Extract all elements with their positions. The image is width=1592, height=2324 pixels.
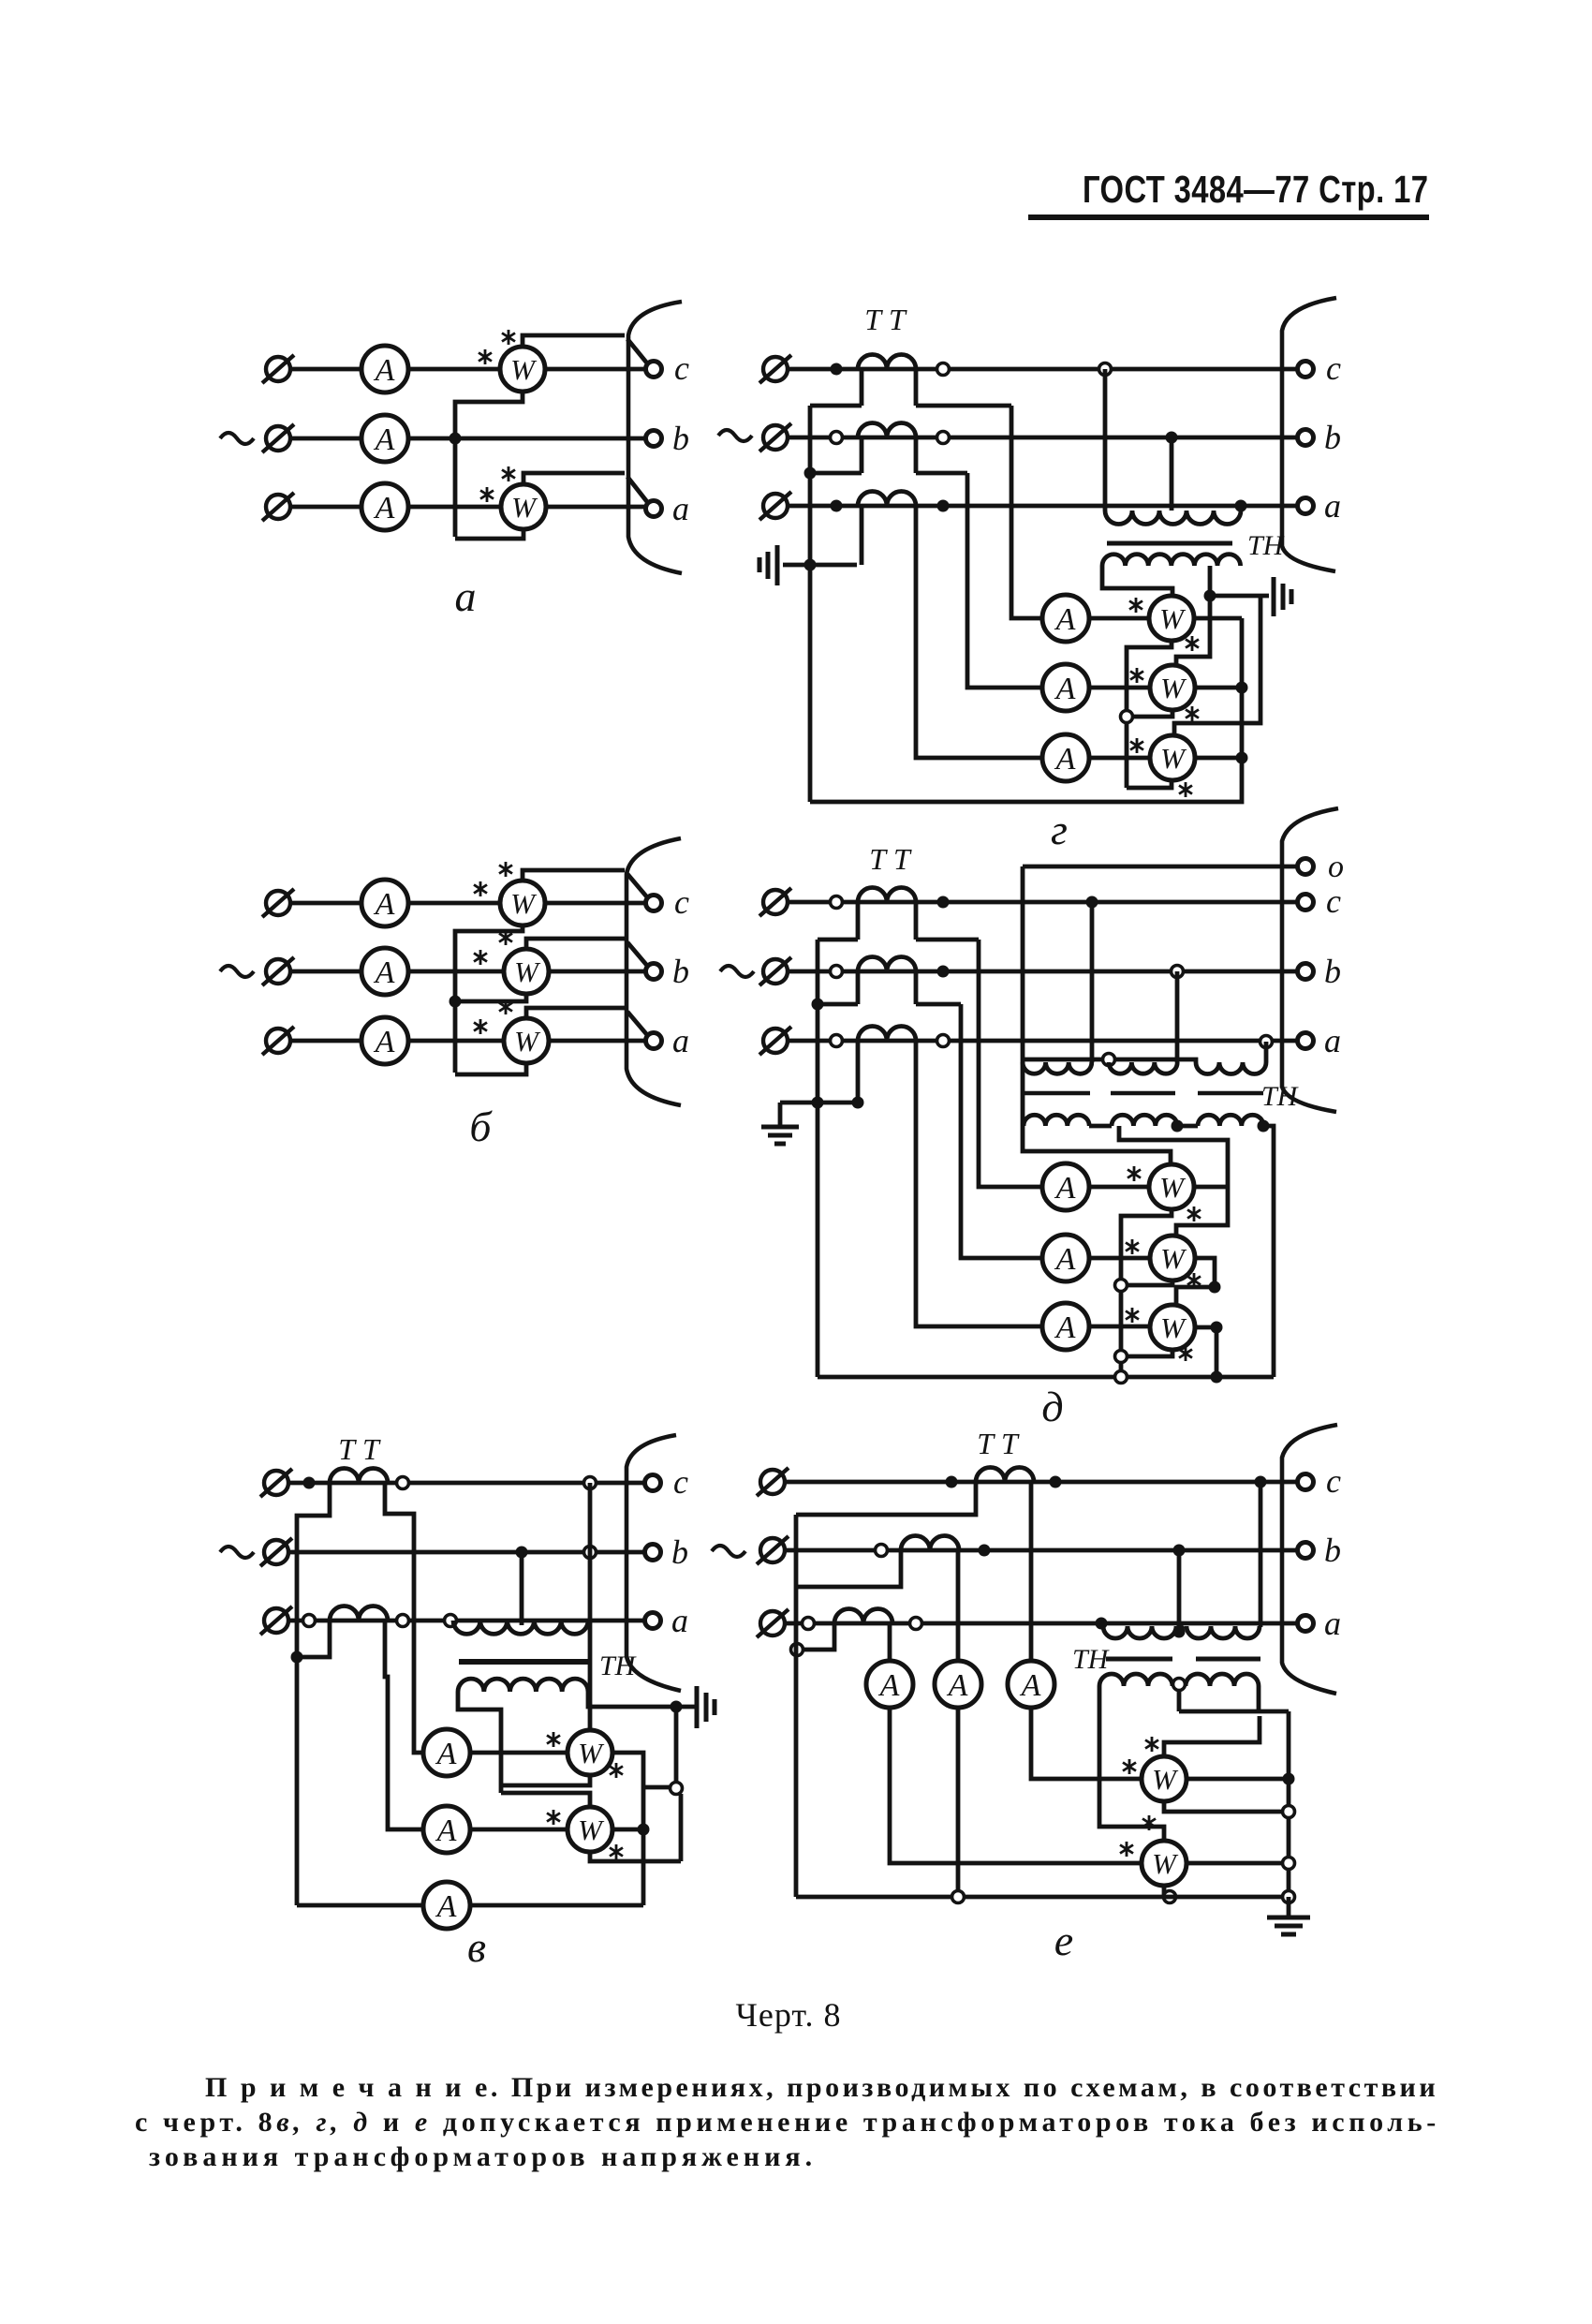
wire link to W2 top — [501, 1793, 590, 1808]
junction W3 bottom on neutral column — [1115, 1351, 1128, 1363]
junction b tap to TH — [1173, 1545, 1186, 1557]
wire A3 to W3 — [1089, 756, 1150, 761]
ground (scheme g right, right-facing earth) — [1274, 577, 1291, 616]
current transformer TT phase c (scheme d) — [858, 888, 916, 903]
svg-text:c: c — [674, 883, 689, 921]
TH primary tap from b — [1177, 1550, 1182, 1632]
wattmeter W2 (scheme d) — [1150, 1236, 1195, 1280]
wattmeter W phase b (scheme b) — [504, 949, 549, 994]
TH primary tap from c — [1259, 1482, 1263, 1627]
junction W2 feed — [671, 1783, 683, 1795]
wire W2 right to bus — [1195, 686, 1242, 690]
crossing mark b at W1 column — [584, 1547, 597, 1559]
wire A3 right to return bus — [470, 1903, 643, 1908]
wire phase a — [788, 504, 1298, 509]
source terminal phase c (scheme e) — [757, 1468, 789, 1496]
junction after CT c — [397, 1477, 409, 1489]
TH core 1 (scheme e) — [1106, 1657, 1172, 1662]
junction ground rail on bus — [804, 559, 817, 571]
junction bus corner — [1283, 1891, 1295, 1903]
wire W2 bottom to neutral column — [1132, 710, 1172, 717]
bottom bus (scheme d) — [818, 1375, 1274, 1380]
TH secondary 2 (scheme e) — [1186, 1674, 1259, 1686]
junction after CT c — [1050, 1476, 1062, 1488]
ammeter A2 (scheme v) — [423, 1806, 470, 1853]
svg-text:ТН: ТН — [1247, 530, 1286, 561]
TH core 1 — [1024, 1091, 1090, 1096]
source terminal phase c (scheme b) — [262, 889, 294, 917]
wire W-b bottom to common bus — [455, 994, 526, 1001]
CT-c secondary right lead down to A1 — [385, 1483, 424, 1753]
TH core (scheme v) — [459, 1659, 590, 1665]
source terminal phase a (scheme a) — [262, 493, 294, 521]
TH primary 2 (scheme e) — [1187, 1626, 1260, 1638]
junction c tap to TH — [1086, 896, 1098, 909]
asterisk W-a current — [474, 1019, 487, 1034]
svg-text:o: o — [1328, 850, 1344, 884]
wire phase c — [290, 901, 361, 906]
ammeter A phase c (scheme a) — [361, 346, 408, 392]
terminal b (scheme d) — [1298, 964, 1314, 980]
junction W2 bottom on neutral column — [1121, 711, 1133, 723]
wire bus bottom to A3 — [297, 1903, 423, 1908]
TH secondary left lead to W1 top — [1102, 566, 1172, 597]
transformer-under-test brace (scheme a) — [628, 302, 682, 573]
CT-b secondary left lead to bus — [796, 1550, 901, 1587]
svg-text:b: b — [1324, 419, 1341, 456]
wire common bus bottom to W-a bottom — [455, 529, 523, 539]
svg-text:a: a — [1324, 487, 1341, 525]
TH tap from a — [1264, 1042, 1269, 1062]
svg-text:b: b — [1324, 953, 1341, 990]
TH secondary left lead to W1 bottom — [458, 1692, 501, 1793]
wire phase b — [788, 436, 1298, 440]
asterisk W3 potential — [1179, 782, 1192, 797]
transformer-under-test brace (scheme b) — [626, 838, 681, 1105]
ground (scheme g left, left-facing earth) — [759, 545, 777, 585]
wire W to terminal a — [549, 1039, 646, 1044]
wire phase c — [788, 900, 1298, 905]
junction b tap — [516, 1547, 528, 1559]
TH secondary right lead to ground — [588, 1692, 672, 1707]
svg-text:ТН: ТН — [1072, 1644, 1111, 1675]
source terminal phase b (scheme b) — [262, 957, 294, 985]
transformer-under-test brace (scheme v) — [626, 1435, 681, 1691]
wire W1 right — [1194, 1185, 1228, 1190]
junction b tap to TH — [1166, 432, 1178, 444]
ammeter A2 (scheme g) — [1042, 664, 1089, 711]
source terminal phase a (scheme b) — [262, 1027, 294, 1055]
asterisk W2 potential — [1186, 706, 1199, 721]
CT-b secondary leads and rail — [810, 437, 967, 473]
TH secondary 1 left lead to W2 top — [1099, 1686, 1164, 1842]
svg-text:П р и м е ч а н и е. При изме: П р и м е ч а н и е. При измерениях, про… — [205, 2072, 1438, 2103]
ammeter A phase b (scheme b) — [361, 948, 408, 995]
ammeter A3 (scheme d) — [1042, 1303, 1089, 1350]
wire W-c bottom to common bus — [455, 392, 523, 537]
wire W-a potential hook up and right — [523, 473, 625, 484]
asterisk W3 current — [1126, 1308, 1139, 1323]
wire phase c — [788, 367, 1298, 372]
svg-text:b: b — [672, 420, 689, 457]
CT-b secondary right lead to A2 — [956, 1550, 961, 1661]
wire phase a — [290, 1039, 361, 1044]
wire bus bottom to W-a bottom — [455, 1063, 526, 1074]
svg-text:ГОСТ 3484—77 Стр. 17: ГОСТ 3484—77 Стр. 17 — [1083, 167, 1428, 210]
junction before CT b — [876, 1545, 888, 1557]
asterisk W3 potential — [1179, 1346, 1192, 1361]
supply tilde (between a and g) — [718, 430, 752, 441]
junction before CT b — [831, 966, 843, 978]
wattmeter W2 (scheme e) — [1142, 1841, 1187, 1886]
junction a to TH primary — [1235, 500, 1247, 512]
terminal a (scheme e) — [1298, 1616, 1314, 1632]
svg-text:Т Т: Т Т — [869, 842, 912, 876]
ammeter A phase c (scheme b) — [361, 880, 408, 926]
wattmeter W phase c (scheme a) — [500, 347, 545, 392]
transformer-under-test brace (scheme e) — [1282, 1425, 1337, 1694]
wattmeter W3 (scheme g) — [1150, 735, 1195, 780]
CT-c secondary left lead to left bus — [297, 1483, 330, 1905]
junction after CT a — [397, 1615, 409, 1627]
current transformer TT phase c (scheme g) — [858, 355, 916, 370]
TH primary right end to a — [1239, 506, 1244, 511]
wire W2 right to bus — [1187, 1861, 1289, 1866]
svg-text:c: c — [673, 1463, 688, 1501]
wattmeter W1 (scheme v) — [568, 1730, 612, 1775]
junction before CT c — [831, 896, 843, 909]
wire A2 to W2 — [1089, 1256, 1150, 1261]
terminal a (scheme a) — [646, 501, 662, 517]
tap diagonal to terminal a (scheme b) — [627, 1012, 648, 1036]
secondary rail to right bus — [1179, 1710, 1289, 1714]
junction after CT b — [937, 432, 950, 444]
asterisk W1 current — [1128, 1166, 1141, 1181]
source terminal phase b (scheme g) — [759, 423, 791, 451]
junction common bus on phase b — [450, 433, 462, 445]
wire phase a — [785, 1621, 1298, 1626]
left bus (scheme g) — [808, 406, 813, 802]
TH primary 2 (scheme d) — [1109, 1062, 1177, 1073]
junction c tap to TH — [1255, 1476, 1267, 1488]
wire wattmeter to terminal c — [545, 367, 646, 372]
terminal c (scheme v) — [645, 1475, 661, 1491]
neutral feed down to W1 top — [1023, 866, 1171, 1165]
svg-text:Т Т: Т Т — [864, 303, 907, 336]
svg-text:c: c — [674, 349, 689, 387]
wire W-a potential hook — [526, 1008, 625, 1018]
source terminal phase c (scheme g) — [759, 355, 791, 383]
wire W to terminal c — [545, 901, 646, 906]
junction a tap to TH — [1096, 1618, 1108, 1630]
terminal c (scheme a) — [646, 362, 662, 377]
junction after CT b — [937, 966, 950, 978]
wire W-c bottom to common bus — [455, 925, 523, 1073]
wire W-c potential hook up and right — [523, 335, 625, 347]
CT-a secondary left lead to bus — [803, 1623, 834, 1650]
svg-text:зования трансформаторов напряж: зования трансформаторов напряжения. — [149, 2141, 817, 2172]
wire A1 to W1 — [1089, 1185, 1149, 1190]
asterisk W1 current — [1123, 1759, 1136, 1774]
TH secondary 2 (scheme d) — [1112, 1115, 1177, 1126]
supply tilde (scheme b left) — [220, 966, 254, 977]
asterisk W-a potential — [499, 999, 512, 1014]
wire W1 bottom to neutral column — [1127, 641, 1172, 788]
source terminal phase b (scheme d) — [759, 957, 791, 985]
wire W1 right to bus — [1187, 1777, 1289, 1782]
svg-text:г: г — [1051, 806, 1068, 853]
junction a tap to TH — [1260, 1036, 1273, 1048]
CT-a secondary right lead to A3 — [916, 1041, 1042, 1326]
asterisk W1 potential — [1187, 1206, 1201, 1221]
junction after CT c — [937, 896, 950, 909]
svg-text:a: a — [672, 1022, 689, 1059]
junction CT-a lead on ground rail — [852, 1097, 864, 1109]
tap diagonal to terminal c (scheme b) — [627, 874, 648, 898]
junction W1 bottom on bus — [1283, 1806, 1295, 1818]
wire phase a — [788, 1039, 1298, 1044]
wire W3 bottom — [1127, 1350, 1172, 1356]
junction W2 right on bus — [1283, 1858, 1295, 1870]
source terminal phase b (scheme e) — [757, 1536, 789, 1564]
wire A1 to W1 — [470, 1751, 568, 1755]
wire phase b — [788, 970, 1298, 974]
wire phase b — [785, 1548, 1298, 1553]
source terminal phase c (scheme d) — [759, 888, 791, 916]
asterisk W1 current — [1129, 598, 1142, 613]
TH secondary 2 right lead — [1257, 1686, 1261, 1711]
wire phase b — [288, 1550, 646, 1555]
junction earth tap — [1204, 590, 1216, 602]
wire A1 to W1 — [1089, 616, 1149, 621]
left bus (scheme d) — [816, 940, 820, 1377]
asterisk W-b current — [474, 950, 487, 965]
svg-text:c: c — [1326, 349, 1341, 387]
wire W2 bottom — [1127, 1280, 1172, 1285]
svg-text:в: в — [467, 1923, 486, 1971]
TH neutral link — [1023, 1059, 1196, 1062]
junction before CT c — [946, 1476, 958, 1488]
terminal a (scheme v) — [645, 1613, 661, 1629]
header underline — [1028, 215, 1429, 220]
CT-b secondary leads and rail — [818, 971, 961, 1004]
wattmeter W phase c (scheme b) — [500, 881, 545, 925]
junction secondary 2 right — [1172, 1120, 1184, 1132]
wattmeter W2 (scheme g) — [1150, 665, 1195, 710]
wire neutral column bottom to W3 bottom — [1127, 780, 1172, 788]
wire W3 right to bus — [1195, 1327, 1216, 1377]
asterisk W1 potential — [1186, 636, 1199, 651]
wire W2 bottom to potential column — [590, 1852, 681, 1861]
TH primary riser a — [1101, 1623, 1103, 1627]
junction before CT a — [831, 500, 843, 512]
asterisk W2 potential — [610, 1844, 623, 1859]
asterisk W-c potential — [499, 862, 512, 877]
current transformer TT phase b (scheme e) — [901, 1536, 959, 1551]
ammeter A1 (scheme d) — [1042, 1163, 1089, 1210]
potential column lower segment — [679, 1794, 684, 1861]
svg-text:Черт. 8: Черт. 8 — [736, 1996, 842, 2034]
left bus (scheme e) — [794, 1515, 799, 1897]
svg-text:b: b — [671, 1533, 688, 1571]
junction ground rail on bus — [812, 1097, 824, 1109]
source terminal phase a (scheme e) — [757, 1609, 789, 1637]
ammeter A3 (scheme e) — [1008, 1661, 1054, 1708]
current transformer TT phase c (scheme e) — [976, 1468, 1034, 1483]
stub to return bus — [643, 1785, 671, 1790]
TH secondary 3 (scheme d) — [1198, 1115, 1263, 1126]
asterisk W3 current — [1130, 738, 1143, 753]
junction W-b bottom on bus — [450, 996, 462, 1008]
wire CT-b to A2 — [961, 1004, 1042, 1258]
asterisk W1 potential — [1145, 1737, 1158, 1752]
TH core 3 — [1198, 1091, 1263, 1096]
wire A2 to W2 — [470, 1828, 568, 1832]
asterisk W-c current — [479, 349, 492, 364]
ammeter A3 (scheme g) — [1042, 734, 1089, 781]
junction after CT c — [937, 363, 950, 376]
svg-text:c: c — [1326, 1462, 1341, 1500]
source terminal phase b (scheme v) — [260, 1538, 292, 1566]
wattmeter W3 (scheme d) — [1150, 1305, 1195, 1350]
supply tilde (scheme a left) — [220, 433, 254, 444]
svg-text:с черт. 8в, г, д и е допускает: с черт. 8в, г, д и е допускается примене… — [135, 2107, 1440, 2138]
current transformer TT phase a (scheme d) — [858, 1027, 916, 1042]
CT-a secondary left lead — [856, 1041, 861, 1103]
wire phase a — [288, 1619, 646, 1623]
wire W2 bottom to bottom bus — [1162, 1886, 1167, 1897]
asterisk W2 potential — [1187, 1273, 1201, 1288]
asterisk W2 current — [1130, 668, 1143, 683]
ammeter A phase a (scheme a) — [361, 483, 408, 530]
supply tilde (between v and e) — [712, 1546, 745, 1557]
wire phase a to ammeter — [290, 505, 361, 510]
wattmeter W phase a (scheme b) — [504, 1018, 549, 1063]
transformer-under-test brace (scheme d) — [1282, 808, 1338, 1112]
ammeter A2 (scheme d) — [1042, 1235, 1089, 1281]
CT-c secondary right lead to A3 — [1029, 1482, 1034, 1661]
junction secondary mid — [1173, 1679, 1186, 1691]
wire W2 right to return bus — [612, 1828, 643, 1832]
wire A to W phase b — [408, 970, 504, 974]
ammeter A3 (scheme v) — [423, 1882, 470, 1929]
wire A1 bottom to W2 — [890, 1708, 1142, 1863]
junction after CT a — [937, 500, 950, 512]
wire ammeter to wattmeter phase a — [408, 505, 501, 510]
terminal a (scheme g) — [1298, 498, 1314, 514]
TH primary tap from b — [1170, 437, 1174, 511]
wire phase c — [785, 1480, 1298, 1485]
svg-text:b: b — [1324, 1532, 1341, 1569]
wire phase c to ammeter — [290, 367, 361, 372]
wire CT-b to A2 — [967, 473, 1042, 688]
terminal b (scheme g) — [1298, 430, 1314, 446]
asterisk W1 current — [547, 1732, 560, 1747]
ground (scheme v, right-facing earth) — [681, 1686, 715, 1728]
asterisk W-c potential — [502, 330, 515, 345]
source terminal phase b (scheme a) — [262, 424, 294, 452]
wire W1 top potential — [1164, 1716, 1260, 1757]
wire CT-c to A1 — [1011, 406, 1042, 618]
source terminal phase a (scheme g) — [759, 492, 791, 520]
wire CT-c to A1 — [979, 940, 1042, 1187]
TH secondary mid tap to bus rail — [1177, 1690, 1182, 1711]
TH primary tap from c — [1103, 369, 1108, 511]
terminal a (scheme d) — [1298, 1033, 1314, 1049]
current transformer TT phase a (scheme g) — [858, 492, 916, 507]
CT-c secondary left lead to bus — [796, 1482, 976, 1515]
voltage transformer TH primary (scheme v) — [453, 1621, 588, 1634]
wire ground node down to W2 top feed — [674, 1707, 679, 1788]
source terminal phase c (scheme v) — [260, 1469, 292, 1497]
asterisk W2 current — [547, 1810, 560, 1825]
secondary series link 1-2 — [1089, 1124, 1112, 1129]
TH secondary 1 (scheme e) — [1099, 1674, 1172, 1686]
secondary tap to W1 right — [1119, 1126, 1228, 1236]
terminal b (scheme a) — [646, 431, 662, 447]
asterisk W-a current — [480, 487, 494, 502]
junction before CT a — [831, 1035, 843, 1047]
ammeter A1 (scheme e) — [866, 1661, 913, 1708]
TH core (scheme g) — [1107, 541, 1232, 546]
wire A3 bottom to W1 — [1031, 1708, 1142, 1779]
TH tap from b — [1175, 971, 1180, 1062]
wire phase c — [288, 1481, 646, 1486]
ammeter A1 (scheme v) — [423, 1729, 470, 1776]
svg-text:a: a — [1324, 1022, 1341, 1059]
ammeter A2 (scheme e) — [935, 1661, 981, 1708]
junction TH primary left on phase a — [445, 1615, 457, 1627]
voltage transformer TH secondary (scheme v) — [458, 1679, 588, 1692]
junction TH primary mid — [1173, 1626, 1186, 1638]
wire c tap down to W1 top — [588, 1483, 593, 1730]
wire W2 right zigzag to W3 top — [1176, 1258, 1215, 1305]
voltage transformer TH primary (scheme g) — [1105, 511, 1241, 525]
wire wattmeter a to terminal a — [546, 505, 646, 510]
junction W3 right on bus — [1236, 752, 1248, 764]
wire ammeter b to terminal b — [408, 437, 646, 441]
junction before CT c — [831, 363, 843, 376]
TH primary tap b — [520, 1552, 524, 1625]
terminal c (scheme e) — [1298, 1474, 1314, 1490]
ammeter A phase a (scheme b) — [361, 1017, 408, 1064]
supply tilde (scheme v left) — [220, 1547, 254, 1558]
CT-a secondary right lead down to A2 — [385, 1621, 424, 1829]
wire W1 right to return bus — [612, 1753, 643, 1905]
terminal c (scheme g) — [1298, 362, 1314, 377]
ground wire (scheme g left) — [783, 563, 857, 568]
wire W1 bottom to bus — [1164, 1801, 1289, 1812]
TH primary 3 (scheme d) — [1196, 1062, 1266, 1074]
junction b tap to TH — [1172, 966, 1184, 978]
asterisk W-b potential — [499, 930, 512, 945]
wire W1 right to right bus — [1194, 616, 1242, 621]
terminal c (scheme d) — [1298, 895, 1314, 910]
wire W to terminal b — [549, 970, 646, 974]
junction after CT a — [910, 1618, 922, 1630]
TH primary 1 (scheme e) — [1103, 1626, 1176, 1638]
TH core 2 (scheme e) — [1196, 1657, 1260, 1662]
wire A to W phase c — [408, 901, 500, 906]
junction b-rail on bus — [812, 999, 824, 1011]
wire W-c potential hook — [523, 870, 625, 881]
wire ammeter to wattmeter phase c — [408, 367, 500, 372]
wattmeter W1 (scheme e) — [1142, 1756, 1187, 1801]
asterisk W1 potential — [610, 1763, 623, 1778]
asterisk W2 current — [1120, 1842, 1133, 1857]
wire A to W phase a — [408, 1039, 504, 1044]
svg-text:Т Т: Т Т — [977, 1427, 1020, 1460]
